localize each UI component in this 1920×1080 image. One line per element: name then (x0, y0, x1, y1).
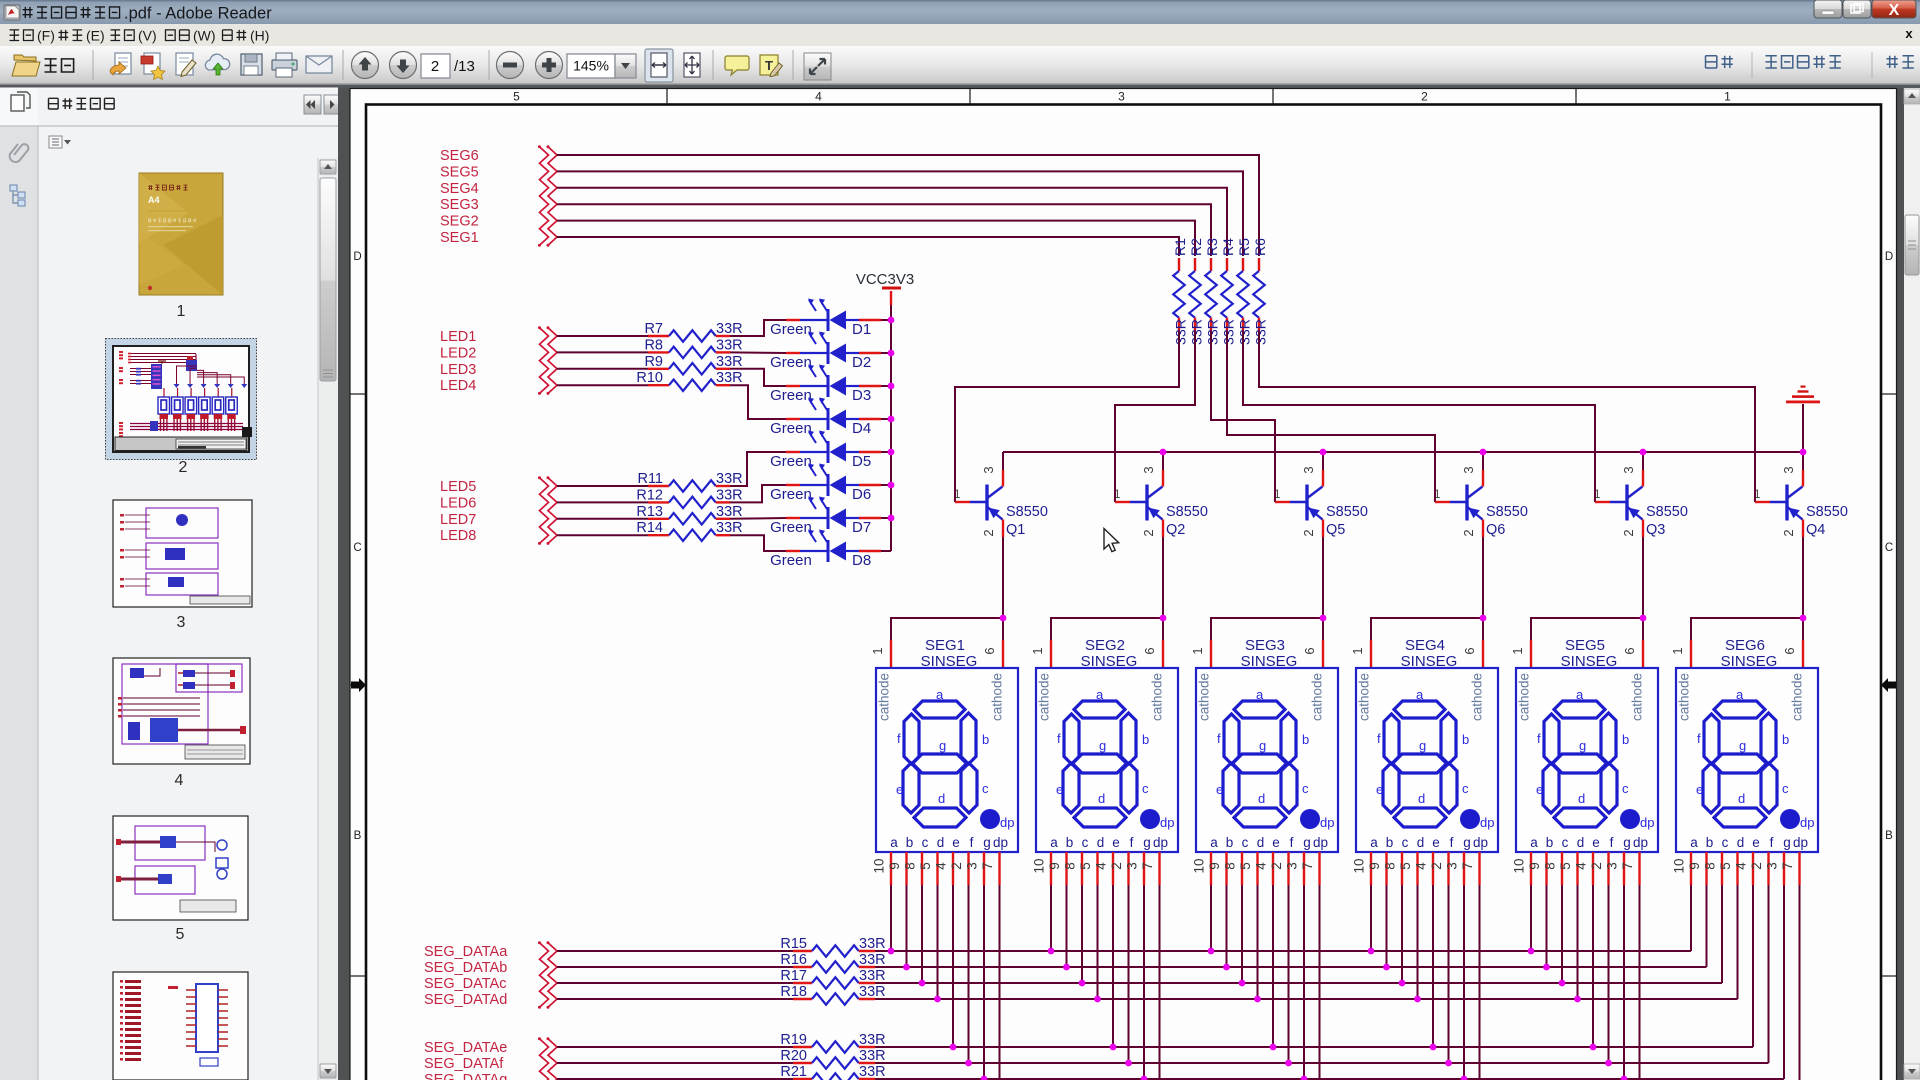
svg-text:4: 4 (1094, 862, 1109, 870)
svg-text:7: 7 (1620, 862, 1635, 870)
svg-text:3: 3 (1461, 466, 1476, 473)
wire SEG2 pin 5 (1097, 885, 1099, 999)
svg-text:8: 8 (1703, 862, 1718, 870)
wire SEG3 pin 2 (1288, 885, 1290, 1063)
node LED1-LED4 net labels (440, 329, 476, 394)
svg-text:d: d (1738, 791, 1745, 806)
transistor Q6 S8550 (1434, 452, 1528, 538)
svg-text:9: 9 (887, 862, 902, 870)
svg-text:2: 2 (1421, 90, 1428, 104)
svg-text:33R: 33R (716, 487, 743, 503)
resistor R1 33R (1172, 238, 1189, 345)
svg-text:1: 1 (1594, 489, 1600, 501)
svg-text:f: f (897, 731, 901, 746)
svg-text:5: 5 (1238, 862, 1253, 870)
svg-text:145%: 145% (573, 58, 609, 74)
svg-text:4: 4 (1574, 862, 1589, 870)
svg-text:2: 2 (1429, 862, 1444, 870)
wire R12 to D6 (730, 485, 786, 502)
svg-text:g: g (1579, 738, 1586, 753)
svg-text:D2: D2 (852, 354, 871, 371)
7-segment display SEG1 SINSEG (870, 637, 1018, 885)
wire SEG4 pin 7 (1479, 885, 1481, 1080)
svg-text:4: 4 (1734, 862, 1749, 870)
svg-text:SEG6: SEG6 (440, 148, 479, 164)
svg-text:LED8: LED8 (440, 528, 476, 544)
svg-text:cathode: cathode (1197, 673, 1212, 721)
svg-text:d: d (1098, 791, 1105, 806)
svg-text:e: e (1432, 835, 1440, 850)
svg-text:R1: R1 (1172, 238, 1188, 256)
svg-text:SEG3: SEG3 (440, 197, 479, 213)
svg-text:D4: D4 (852, 420, 871, 437)
wire SEG5 pin 10 (1530, 885, 1532, 951)
svg-text:3: 3 (981, 466, 996, 473)
wire SEG_DATA row a (875, 950, 1691, 952)
wire SEG6 pin 2 (1768, 885, 1770, 1063)
wire SEG1 pin 7 (999, 885, 1001, 1080)
svg-text:dp: dp (1480, 815, 1494, 830)
svg-text:33R: 33R (1189, 319, 1205, 345)
wire R4 to Q base (1227, 330, 1435, 502)
resistor R7 33R (557, 321, 743, 342)
svg-text:dp: dp (1000, 815, 1014, 830)
svg-text:Q5: Q5 (1326, 522, 1345, 538)
svg-text:d: d (937, 835, 945, 850)
svg-text:5: 5 (513, 90, 520, 104)
svg-text:LED1: LED1 (440, 329, 476, 345)
svg-text:1: 1 (870, 647, 885, 654)
wire SEG6 pin 9 (1706, 885, 1708, 967)
wire R5 to Q base (1243, 330, 1595, 502)
wire SEG6 pin 8 (1721, 885, 1723, 983)
resistor R11 33R (557, 471, 743, 492)
wire VCC rail (890, 305, 892, 551)
svg-text:1: 1 (1030, 647, 1045, 654)
svg-text:10: 10 (872, 858, 887, 873)
resistor R20 33R (557, 1048, 886, 1069)
node SEG_DATAe-g net labels (424, 1040, 507, 1080)
svg-text:SEG_DATAa: SEG_DATAa (424, 944, 508, 960)
svg-text:R19: R19 (780, 1032, 807, 1048)
svg-text:a: a (1530, 835, 1538, 850)
svg-text:R8: R8 (644, 337, 663, 353)
svg-text:5: 5 (1398, 862, 1413, 870)
junction dots VCC rail (888, 317, 895, 522)
node SEG6-SEG1 net labels (440, 148, 479, 246)
svg-text:a: a (1210, 835, 1218, 850)
wire SEG5 pin 2 (1608, 885, 1610, 1063)
svg-text:S8550: S8550 (1646, 504, 1688, 520)
svg-text:4: 4 (934, 862, 949, 870)
resistor R21 33R (557, 1064, 886, 1080)
svg-text:Q1: Q1 (1006, 522, 1025, 538)
svg-text:e: e (896, 782, 903, 797)
svg-text:SEG_DATAd: SEG_DATAd (424, 992, 507, 1008)
svg-text:3: 3 (1118, 90, 1125, 104)
wire Q5 collector to SEG3 (1211, 537, 1323, 640)
wire SEG3 pin 8 (1241, 885, 1243, 983)
svg-text:a: a (1576, 687, 1584, 702)
svg-text:2: 2 (1269, 862, 1284, 870)
svg-text:c: c (982, 781, 989, 796)
wire SEG4 pin 9 (1386, 885, 1388, 967)
resistor R9 33R (557, 354, 743, 375)
svg-text:1: 1 (177, 303, 186, 320)
svg-text:c: c (1242, 835, 1249, 850)
svg-text:dp: dp (1473, 835, 1488, 850)
svg-text:c: c (1142, 781, 1149, 796)
svg-text:1: 1 (1754, 489, 1760, 501)
LED D1 Green (770, 299, 881, 339)
svg-text:R18: R18 (780, 984, 807, 1000)
svg-text:SEG_DATAc: SEG_DATAc (424, 976, 506, 992)
node LED5-LED8 net labels (440, 479, 476, 544)
svg-text:2: 2 (1781, 529, 1796, 536)
wire SEG5 pin 8 (1561, 885, 1563, 983)
wire R8 to D2 (730, 351, 786, 354)
svg-text:dp: dp (1153, 835, 1168, 850)
svg-text:R6: R6 (1252, 238, 1268, 256)
svg-text:Green: Green (770, 552, 812, 569)
wire SEG2 pin 9 (1066, 885, 1068, 967)
svg-text:1: 1 (1274, 489, 1280, 501)
svg-text:D3: D3 (852, 387, 871, 404)
svg-text:6: 6 (1142, 647, 1157, 654)
wire R3 to Q base (1211, 330, 1275, 502)
svg-text:9: 9 (1367, 862, 1382, 870)
svg-text:e: e (1112, 835, 1120, 850)
junction dots emitter bus (1160, 449, 1807, 456)
svg-text:dp: dp (1320, 815, 1334, 830)
svg-text:33R: 33R (1221, 319, 1237, 345)
wire SEG_DATA row d (875, 998, 1738, 1000)
wire Q6 collector to SEG4 (1371, 537, 1483, 640)
svg-text:1: 1 (1510, 647, 1525, 654)
wire SEG3 pin 4 (1272, 885, 1274, 1047)
svg-text:b: b (982, 732, 989, 747)
wire Q3 collector to SEG5 (1531, 537, 1643, 640)
7-segment display SEG3 SINSEG (1190, 637, 1338, 885)
svg-text:5: 5 (918, 862, 933, 870)
svg-text:5: 5 (1718, 862, 1733, 870)
wire R11 to D5 (730, 452, 786, 486)
svg-text:1: 1 (1190, 647, 1205, 654)
svg-text:dp: dp (993, 835, 1008, 850)
svg-text:R5: R5 (1236, 238, 1252, 256)
svg-text:D5: D5 (852, 453, 871, 470)
wire SEG1 pin 9 (906, 885, 908, 967)
resistor R15 33R (557, 936, 886, 957)
transistor Q1 S8550 (954, 452, 1048, 538)
svg-text:a: a (1050, 835, 1058, 850)
svg-text:3: 3 (1605, 862, 1620, 870)
svg-text:b: b (1782, 732, 1789, 747)
svg-text:9: 9 (1047, 862, 1062, 870)
wire SEG6 pin 5 (1737, 885, 1739, 999)
svg-text:cathode: cathode (990, 673, 1005, 721)
svg-text:33R: 33R (859, 968, 886, 984)
svg-text:c: c (1462, 781, 1469, 796)
svg-text:dp: dp (1640, 815, 1654, 830)
svg-text:Q2: Q2 (1166, 522, 1185, 538)
svg-text:D8: D8 (852, 552, 871, 569)
svg-text:g: g (1419, 738, 1426, 753)
resistor R12 33R (557, 487, 743, 508)
resistor R10 33R (557, 370, 743, 391)
svg-text:S8550: S8550 (1006, 504, 1048, 520)
resistor R19 33R (557, 1032, 886, 1053)
svg-text:10: 10 (1672, 858, 1687, 873)
svg-text:S8550: S8550 (1326, 504, 1368, 520)
svg-text:SEG5: SEG5 (440, 164, 479, 180)
svg-text:c: c (1722, 835, 1729, 850)
svg-text:Q3: Q3 (1646, 522, 1665, 538)
svg-text:2: 2 (431, 58, 439, 75)
LED D2 Green (770, 332, 881, 372)
svg-text:a: a (1370, 835, 1378, 850)
svg-text:Green: Green (770, 420, 812, 437)
wire D1 to VCC rail (881, 319, 891, 321)
svg-text:2: 2 (949, 862, 964, 870)
svg-text:5: 5 (1078, 862, 1093, 870)
svg-text:33R: 33R (716, 354, 743, 370)
svg-text:8: 8 (1543, 862, 1558, 870)
svg-text:33R: 33R (716, 337, 743, 353)
wire Q2 collector to SEG2 (1051, 537, 1163, 640)
svg-text:b: b (906, 835, 914, 850)
svg-text:d: d (1418, 791, 1425, 806)
svg-text:10: 10 (1512, 858, 1527, 873)
LED D3 Green (770, 365, 881, 405)
wire D7 to VCC rail (881, 517, 891, 519)
svg-text:3: 3 (1765, 862, 1780, 870)
wire net SEG1 (557, 237, 1179, 256)
wire D3 to VCC rail (881, 385, 891, 387)
svg-text:g: g (1259, 738, 1266, 753)
wire SEG4 pin 5 (1417, 885, 1419, 999)
svg-text:b: b (1622, 732, 1629, 747)
svg-text:A4: A4 (148, 195, 160, 205)
svg-text:7: 7 (1140, 862, 1155, 870)
svg-text:f: f (1290, 835, 1294, 850)
wire R7 to D1 (730, 320, 786, 336)
wire SEG6 pin 7 (1799, 885, 1801, 1080)
svg-text:g: g (939, 738, 946, 753)
svg-text:LED3: LED3 (440, 362, 476, 378)
svg-text:e: e (1536, 782, 1543, 797)
svg-text:R10: R10 (636, 370, 663, 386)
wire SEG4 pin 8 (1401, 885, 1403, 983)
wire SEG1 pin 2 (968, 885, 970, 1063)
wire SEG1 pin 10 (890, 885, 892, 951)
svg-text:(F): (F) (37, 28, 55, 44)
wire SEG6 pin 10 (1690, 885, 1692, 951)
svg-text:33R: 33R (859, 936, 886, 952)
wire entry SEG_DATAe-g group (538, 1037, 557, 1080)
svg-text:R14: R14 (636, 520, 663, 536)
svg-text:33R: 33R (859, 1048, 886, 1064)
ground GND (1786, 386, 1820, 453)
svg-text:d: d (1257, 835, 1265, 850)
svg-text:2: 2 (981, 529, 996, 536)
svg-text:c: c (922, 835, 929, 850)
svg-text:a: a (1256, 687, 1264, 702)
svg-text:33R: 33R (716, 321, 743, 337)
svg-text:9: 9 (1687, 862, 1702, 870)
svg-text:1: 1 (1114, 489, 1120, 501)
svg-text:R17: R17 (780, 968, 807, 984)
svg-text:SEG1: SEG1 (925, 637, 965, 654)
svg-text:7: 7 (980, 862, 995, 870)
svg-text:cathode: cathode (1310, 673, 1325, 721)
svg-text:1: 1 (954, 489, 960, 501)
svg-text:d: d (1578, 791, 1585, 806)
svg-text:1: 1 (1434, 489, 1440, 501)
svg-text:9: 9 (1527, 862, 1542, 870)
svg-text:dp: dp (1800, 815, 1814, 830)
svg-text:7: 7 (1460, 862, 1475, 870)
svg-text:R3: R3 (1204, 238, 1220, 256)
wire SEG1 pin 4 (952, 885, 954, 1047)
wire SEG_DATA row f (875, 1062, 1769, 1064)
svg-text:D6: D6 (852, 486, 871, 503)
svg-text:Green: Green (770, 354, 812, 371)
wire R6 to Q base (1259, 330, 1755, 502)
svg-text:/13: /13 (454, 58, 475, 75)
svg-text:2: 2 (1461, 529, 1476, 536)
svg-text:f: f (1450, 835, 1454, 850)
svg-text:33R: 33R (859, 984, 886, 1000)
resistor R3 33R (1204, 238, 1221, 345)
svg-text:d: d (1417, 835, 1425, 850)
svg-text:cathode: cathode (1677, 673, 1692, 721)
svg-text:Q6: Q6 (1486, 522, 1505, 538)
svg-text:R12: R12 (636, 487, 663, 503)
svg-text:33R: 33R (716, 520, 743, 536)
wire SEG2 pin 7 (1159, 885, 1161, 1080)
svg-text:8: 8 (903, 862, 918, 870)
svg-text:(V): (V) (138, 28, 157, 44)
svg-text:6: 6 (1302, 647, 1317, 654)
svg-text:6: 6 (1462, 647, 1477, 654)
svg-text:Green: Green (770, 453, 812, 470)
svg-text:e: e (1056, 782, 1063, 797)
transistor Q2 S8550 (1114, 452, 1208, 538)
svg-text:b: b (1546, 835, 1554, 850)
svg-text:x: x (1905, 26, 1913, 41)
wire SEG1 pin 8 (921, 885, 923, 983)
svg-text:SEG5: SEG5 (1565, 637, 1605, 654)
resistor R8 33R (557, 337, 743, 358)
svg-text:VCC3V3: VCC3V3 (856, 271, 914, 288)
resistor R13 33R (557, 504, 743, 525)
svg-text:c: c (1302, 781, 1309, 796)
svg-text:10: 10 (1352, 858, 1367, 873)
svg-text:.pdf - Adobe Reader: .pdf - Adobe Reader (124, 5, 272, 23)
svg-text:D: D (1885, 251, 1893, 263)
wire emitter bus (1003, 451, 1803, 453)
svg-text:f: f (1057, 731, 1061, 746)
svg-text:LED5: LED5 (440, 479, 476, 495)
wire R13 to D7 (730, 517, 786, 520)
wire SEG5 pin 9 (1546, 885, 1548, 967)
svg-text:g: g (983, 835, 991, 850)
svg-text:1: 1 (1350, 647, 1365, 654)
svg-text:cathode: cathode (1517, 673, 1532, 721)
svg-text:2: 2 (1589, 862, 1604, 870)
svg-text:SEG2: SEG2 (1085, 637, 1125, 654)
svg-text:B: B (1885, 830, 1893, 842)
wire D5 to VCC rail (881, 451, 891, 453)
svg-text:SEG_DATAf: SEG_DATAf (424, 1056, 504, 1072)
svg-text:2: 2 (1301, 529, 1316, 536)
svg-text:R2: R2 (1188, 238, 1204, 256)
svg-text:8: 8 (1223, 862, 1238, 870)
svg-text:6: 6 (1782, 647, 1797, 654)
svg-text:33R: 33R (859, 1032, 886, 1048)
svg-text:2: 2 (179, 459, 188, 476)
wire SEG2 pin 8 (1081, 885, 1083, 983)
svg-text:dp: dp (1160, 815, 1174, 830)
wire SEG2 pin 3 (1143, 885, 1145, 1079)
wire D4 to VCC rail (881, 418, 891, 420)
svg-text:10: 10 (1032, 858, 1047, 873)
svg-text:LED6: LED6 (440, 495, 476, 511)
svg-text:f: f (1130, 835, 1134, 850)
svg-text:e: e (1216, 782, 1223, 797)
resistor R14 33R (557, 520, 743, 541)
svg-text:SEG2: SEG2 (440, 214, 479, 230)
svg-text:3: 3 (1141, 466, 1156, 473)
svg-text:SEG_DATAg: SEG_DATAg (424, 1072, 507, 1080)
svg-text:R15: R15 (780, 936, 807, 952)
svg-text:R16: R16 (780, 952, 807, 968)
svg-text:7: 7 (1780, 862, 1795, 870)
svg-text:SEG3: SEG3 (1245, 637, 1285, 654)
svg-text:2: 2 (1141, 529, 1156, 536)
svg-text:a: a (936, 687, 944, 702)
svg-text:g: g (1739, 738, 1746, 753)
svg-text:7: 7 (1300, 862, 1315, 870)
svg-text:f: f (1697, 731, 1701, 746)
junction dots SEG_DATA rows (888, 948, 1628, 1080)
svg-text:8: 8 (1383, 862, 1398, 870)
svg-text:1: 1 (1724, 90, 1731, 104)
wire SEG_DATA row c (875, 982, 1722, 984)
svg-text:f: f (970, 835, 974, 850)
svg-text:dp: dp (1633, 835, 1648, 850)
power VCC3V3 (856, 271, 914, 305)
wire SEG3 pin 5 (1257, 885, 1259, 999)
svg-text:c: c (1562, 835, 1569, 850)
wire D8 to VCC rail (881, 550, 891, 552)
svg-text:e: e (1592, 835, 1600, 850)
wire entry SEG_DATAa-d group (538, 941, 557, 1008)
svg-text:g: g (1143, 835, 1151, 850)
wire Q1 collector to SEG1 (891, 537, 1003, 640)
svg-text:f: f (1217, 731, 1221, 746)
node SEG_DATAa-d net labels (424, 944, 508, 1008)
svg-text:B: B (354, 830, 362, 842)
svg-text:cathode: cathode (1357, 673, 1372, 721)
wire R9 to D3 (730, 369, 786, 386)
svg-text:Green: Green (770, 519, 812, 536)
wire SEG_DATA row b (875, 966, 1707, 968)
wire D2 to VCC rail (881, 352, 891, 354)
wire D6 to VCC rail (881, 484, 891, 486)
wire SEG4 pin 3 (1463, 885, 1465, 1079)
